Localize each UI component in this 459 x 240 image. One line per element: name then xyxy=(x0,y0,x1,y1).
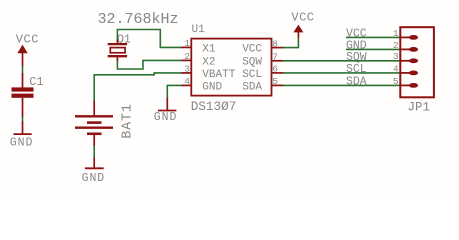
label C1 xyxy=(29,75,43,89)
svg-text:BAT1: BAT1 xyxy=(121,103,136,139)
IC U1 value label DS1307 xyxy=(191,99,237,114)
svg-text:SQW: SQW xyxy=(346,51,367,64)
pin name SCL xyxy=(242,69,262,81)
JP1 pin number 5 xyxy=(393,76,399,87)
power symbol VCC right label xyxy=(291,10,314,24)
svg-text:4: 4 xyxy=(393,63,399,74)
pin 1 stub U1 xyxy=(182,46,192,48)
JP1 pin number 3 xyxy=(393,51,399,62)
capacitor C1 xyxy=(12,73,34,117)
pin 8 stub U1 xyxy=(272,47,284,49)
svg-text:7: 7 xyxy=(272,52,278,63)
svg-text:GND: GND xyxy=(202,81,222,93)
IC U1 DS1307 box xyxy=(191,39,271,96)
svg-text:5: 5 xyxy=(272,76,278,87)
svg-text:GND: GND xyxy=(10,136,34,149)
JP1 pin 1 pad xyxy=(400,35,418,40)
svg-text:VBATT: VBATT xyxy=(202,69,235,81)
wire battery top to U1 pin 3 VBATT xyxy=(94,73,182,101)
svg-text:X2: X2 xyxy=(202,56,215,68)
pin 2 stub U1 xyxy=(182,59,192,61)
JP1 pin number 1 xyxy=(393,28,399,39)
svg-text:1: 1 xyxy=(393,28,399,39)
svg-text:X1: X1 xyxy=(202,43,216,55)
wire net VCC to JP1 pin 1 xyxy=(346,36,400,38)
svg-text:1: 1 xyxy=(184,38,190,49)
connector JP1 body xyxy=(400,27,434,97)
pin name X1 xyxy=(202,43,216,55)
wire battery bottom to ground xyxy=(93,146,95,159)
wire U1 pin 5 SDA to JP1 pin 5 xyxy=(283,84,400,86)
pin number 5 xyxy=(272,76,278,87)
svg-text:5: 5 xyxy=(393,76,399,87)
pin name VCC xyxy=(242,44,262,56)
pin number 3 xyxy=(184,64,190,75)
pin number 8 xyxy=(272,38,278,49)
net label SQW xyxy=(346,51,367,64)
JP1 pin 5 pad xyxy=(400,83,418,88)
crystal frequency label 32.768kHz xyxy=(98,11,179,28)
pin name GND xyxy=(202,81,222,93)
wire net GND to JP1 pin 2 xyxy=(346,48,400,50)
svg-text:SDA: SDA xyxy=(346,76,367,89)
net label VCC xyxy=(346,28,367,41)
svg-text:GND: GND xyxy=(82,172,106,185)
pin name SQW xyxy=(242,57,262,69)
pin number 6 xyxy=(272,64,278,75)
JP1 pin number 4 xyxy=(393,63,399,74)
ground symbol below C1 xyxy=(10,121,34,149)
svg-text:VCC: VCC xyxy=(291,10,314,24)
pin name SDA xyxy=(242,81,262,93)
JP1 pin 2 pad xyxy=(400,47,418,52)
pin 6 stub U1 xyxy=(272,72,284,74)
pin 3 stub U1 xyxy=(182,72,192,74)
pin 7 stub U1 xyxy=(272,60,284,62)
svg-text:VCC: VCC xyxy=(242,44,262,56)
svg-text:3: 3 xyxy=(393,51,399,62)
label Q1 xyxy=(117,34,131,47)
svg-text:2: 2 xyxy=(184,51,190,62)
svg-text:SCL: SCL xyxy=(346,63,367,76)
IC U1 name label xyxy=(192,24,206,36)
net label SCL xyxy=(346,63,367,76)
pin 4 stub U1 xyxy=(182,84,192,86)
svg-text:32.768kHz: 32.768kHz xyxy=(98,11,179,28)
label JP1 xyxy=(408,100,431,114)
battery BAT1 xyxy=(75,100,113,145)
wire crystal bottom to U1 pin 2 xyxy=(117,60,182,69)
svg-text:VCC: VCC xyxy=(16,32,39,46)
pin number 7 xyxy=(272,52,278,63)
svg-text:C1: C1 xyxy=(29,75,43,89)
label BAT1 xyxy=(121,103,136,139)
svg-text:JP1: JP1 xyxy=(408,100,431,114)
crystal Q1 xyxy=(108,39,127,62)
svg-text:3: 3 xyxy=(184,64,190,75)
wire U1 pin 4 GND to ground xyxy=(167,85,182,98)
net label SDA xyxy=(346,76,367,89)
wire C1 to ground xyxy=(22,117,24,122)
pin number 2 xyxy=(184,51,190,62)
wire U1 pin 7 SQW to JP1 pin 3 xyxy=(283,60,400,62)
svg-text:GND: GND xyxy=(154,111,178,124)
power symbol VCC left label xyxy=(16,32,39,46)
wire VCC to C1 xyxy=(22,66,24,73)
wire U1 pin 8 to VCC arrow xyxy=(283,38,298,48)
svg-text:2: 2 xyxy=(393,40,399,51)
JP1 pin 4 pad xyxy=(400,71,418,76)
svg-text:SQW: SQW xyxy=(242,57,262,69)
svg-text:U1: U1 xyxy=(192,24,206,36)
pin 5 stub U1 xyxy=(272,84,284,86)
pin name VBATT xyxy=(202,69,235,81)
wire crystal top to U1 pin 1 xyxy=(117,30,182,48)
ground symbol below BAT1 xyxy=(82,158,106,185)
net label GND xyxy=(346,40,367,53)
pin name X2 xyxy=(202,56,215,68)
JP1 pin number 2 xyxy=(393,40,399,51)
svg-text:8: 8 xyxy=(272,38,278,49)
ground symbol for U1 pin 4 xyxy=(154,98,178,124)
JP1 pin 3 pad xyxy=(400,58,418,63)
svg-text:6: 6 xyxy=(272,64,278,75)
power symbol VCC right arrow xyxy=(293,25,303,38)
pin number 4 xyxy=(184,76,190,87)
svg-text:SDA: SDA xyxy=(242,81,262,93)
svg-text:SCL: SCL xyxy=(242,69,262,81)
power symbol VCC left arrow xyxy=(17,45,27,67)
svg-text:4: 4 xyxy=(184,76,190,87)
pin number 1 xyxy=(184,38,190,49)
svg-text:DS13Ø7: DS13Ø7 xyxy=(191,99,237,114)
wire U1 pin 6 SCL to JP1 pin 4 xyxy=(283,72,400,74)
